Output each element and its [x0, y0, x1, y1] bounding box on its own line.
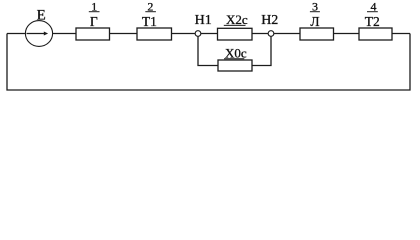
- wire box 1 to box 2: [110, 33, 138, 35]
- label 4/Т2: [365, 0, 380, 29]
- svg-text:Т1: Т1: [142, 14, 157, 29]
- label X0c underlined: [224, 45, 247, 60]
- svg-text:Г: Г: [90, 14, 98, 29]
- wire box X2c to node Н2: [252, 33, 268, 35]
- label 3/Л: [310, 0, 320, 29]
- impedance box X0c: [218, 60, 252, 71]
- svg-text:E: E: [37, 7, 46, 23]
- node Н1: [195, 31, 201, 37]
- svg-text:X2c: X2c: [226, 12, 248, 27]
- impedance box 3 (Л, line): [300, 28, 334, 40]
- impedance box 4 (Т2, transformer 2): [359, 28, 392, 40]
- svg-text:Н2: Н2: [261, 13, 278, 28]
- impedance box 2 (Т1, transformer 1): [137, 28, 172, 40]
- wire box 2 to node Н1: [172, 33, 196, 35]
- wire branch from node Н1 down to X0c: [198, 36, 218, 66]
- label 2/Т1: [142, 0, 157, 29]
- svg-text:Т2: Т2: [365, 14, 380, 29]
- wire source to box 1: [53, 33, 77, 35]
- source arrow: [27, 32, 49, 36]
- label X2c underlined: [224, 12, 248, 27]
- svg-text:Н1: Н1: [195, 13, 212, 28]
- wire branch from node Н2 down to X0c: [252, 36, 271, 66]
- wire node Н1 to box X2c: [201, 33, 218, 35]
- source E (EMF): [25, 21, 52, 47]
- wire box 3 to box 4: [334, 33, 360, 35]
- svg-text:Л: Л: [310, 14, 319, 29]
- impedance box X2c: [218, 28, 253, 40]
- wire box 4 to right corner: [392, 33, 410, 35]
- wire rail left to source: [7, 33, 26, 35]
- node Н2: [268, 31, 274, 37]
- label 1/Г: [89, 0, 100, 29]
- wire node Н2 to box 3: [274, 33, 300, 35]
- wire outer loop: [7, 34, 410, 91]
- svg-text:X0c: X0c: [225, 45, 247, 60]
- impedance box 1 (Г, generator): [76, 28, 110, 40]
